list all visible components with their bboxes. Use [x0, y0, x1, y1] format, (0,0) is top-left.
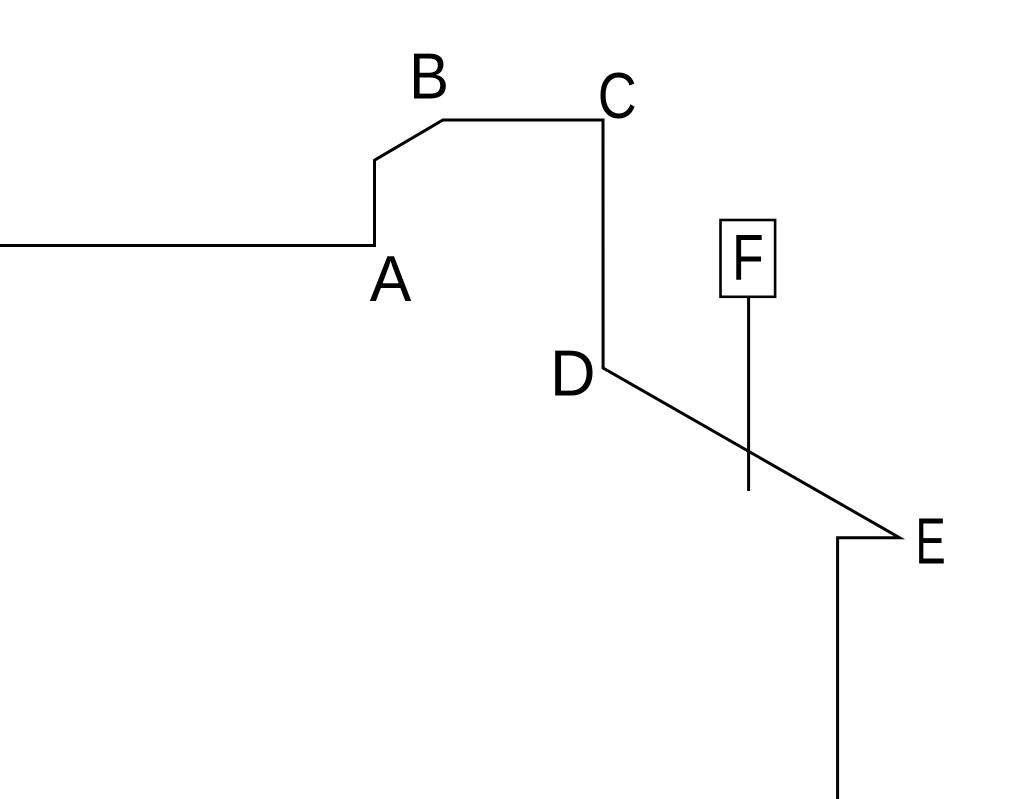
- svg-text:C: C: [598, 59, 637, 132]
- wire F connector: [747, 297, 750, 491]
- svg-text:E: E: [915, 505, 945, 578]
- wire main polyline A-B-C-D-E: [0, 120, 900, 799]
- node F box: [721, 220, 776, 297]
- svg-text:F: F: [732, 222, 764, 294]
- svg-text:A: A: [370, 242, 412, 315]
- svg-text:B: B: [409, 40, 449, 113]
- svg-text:D: D: [550, 337, 596, 410]
